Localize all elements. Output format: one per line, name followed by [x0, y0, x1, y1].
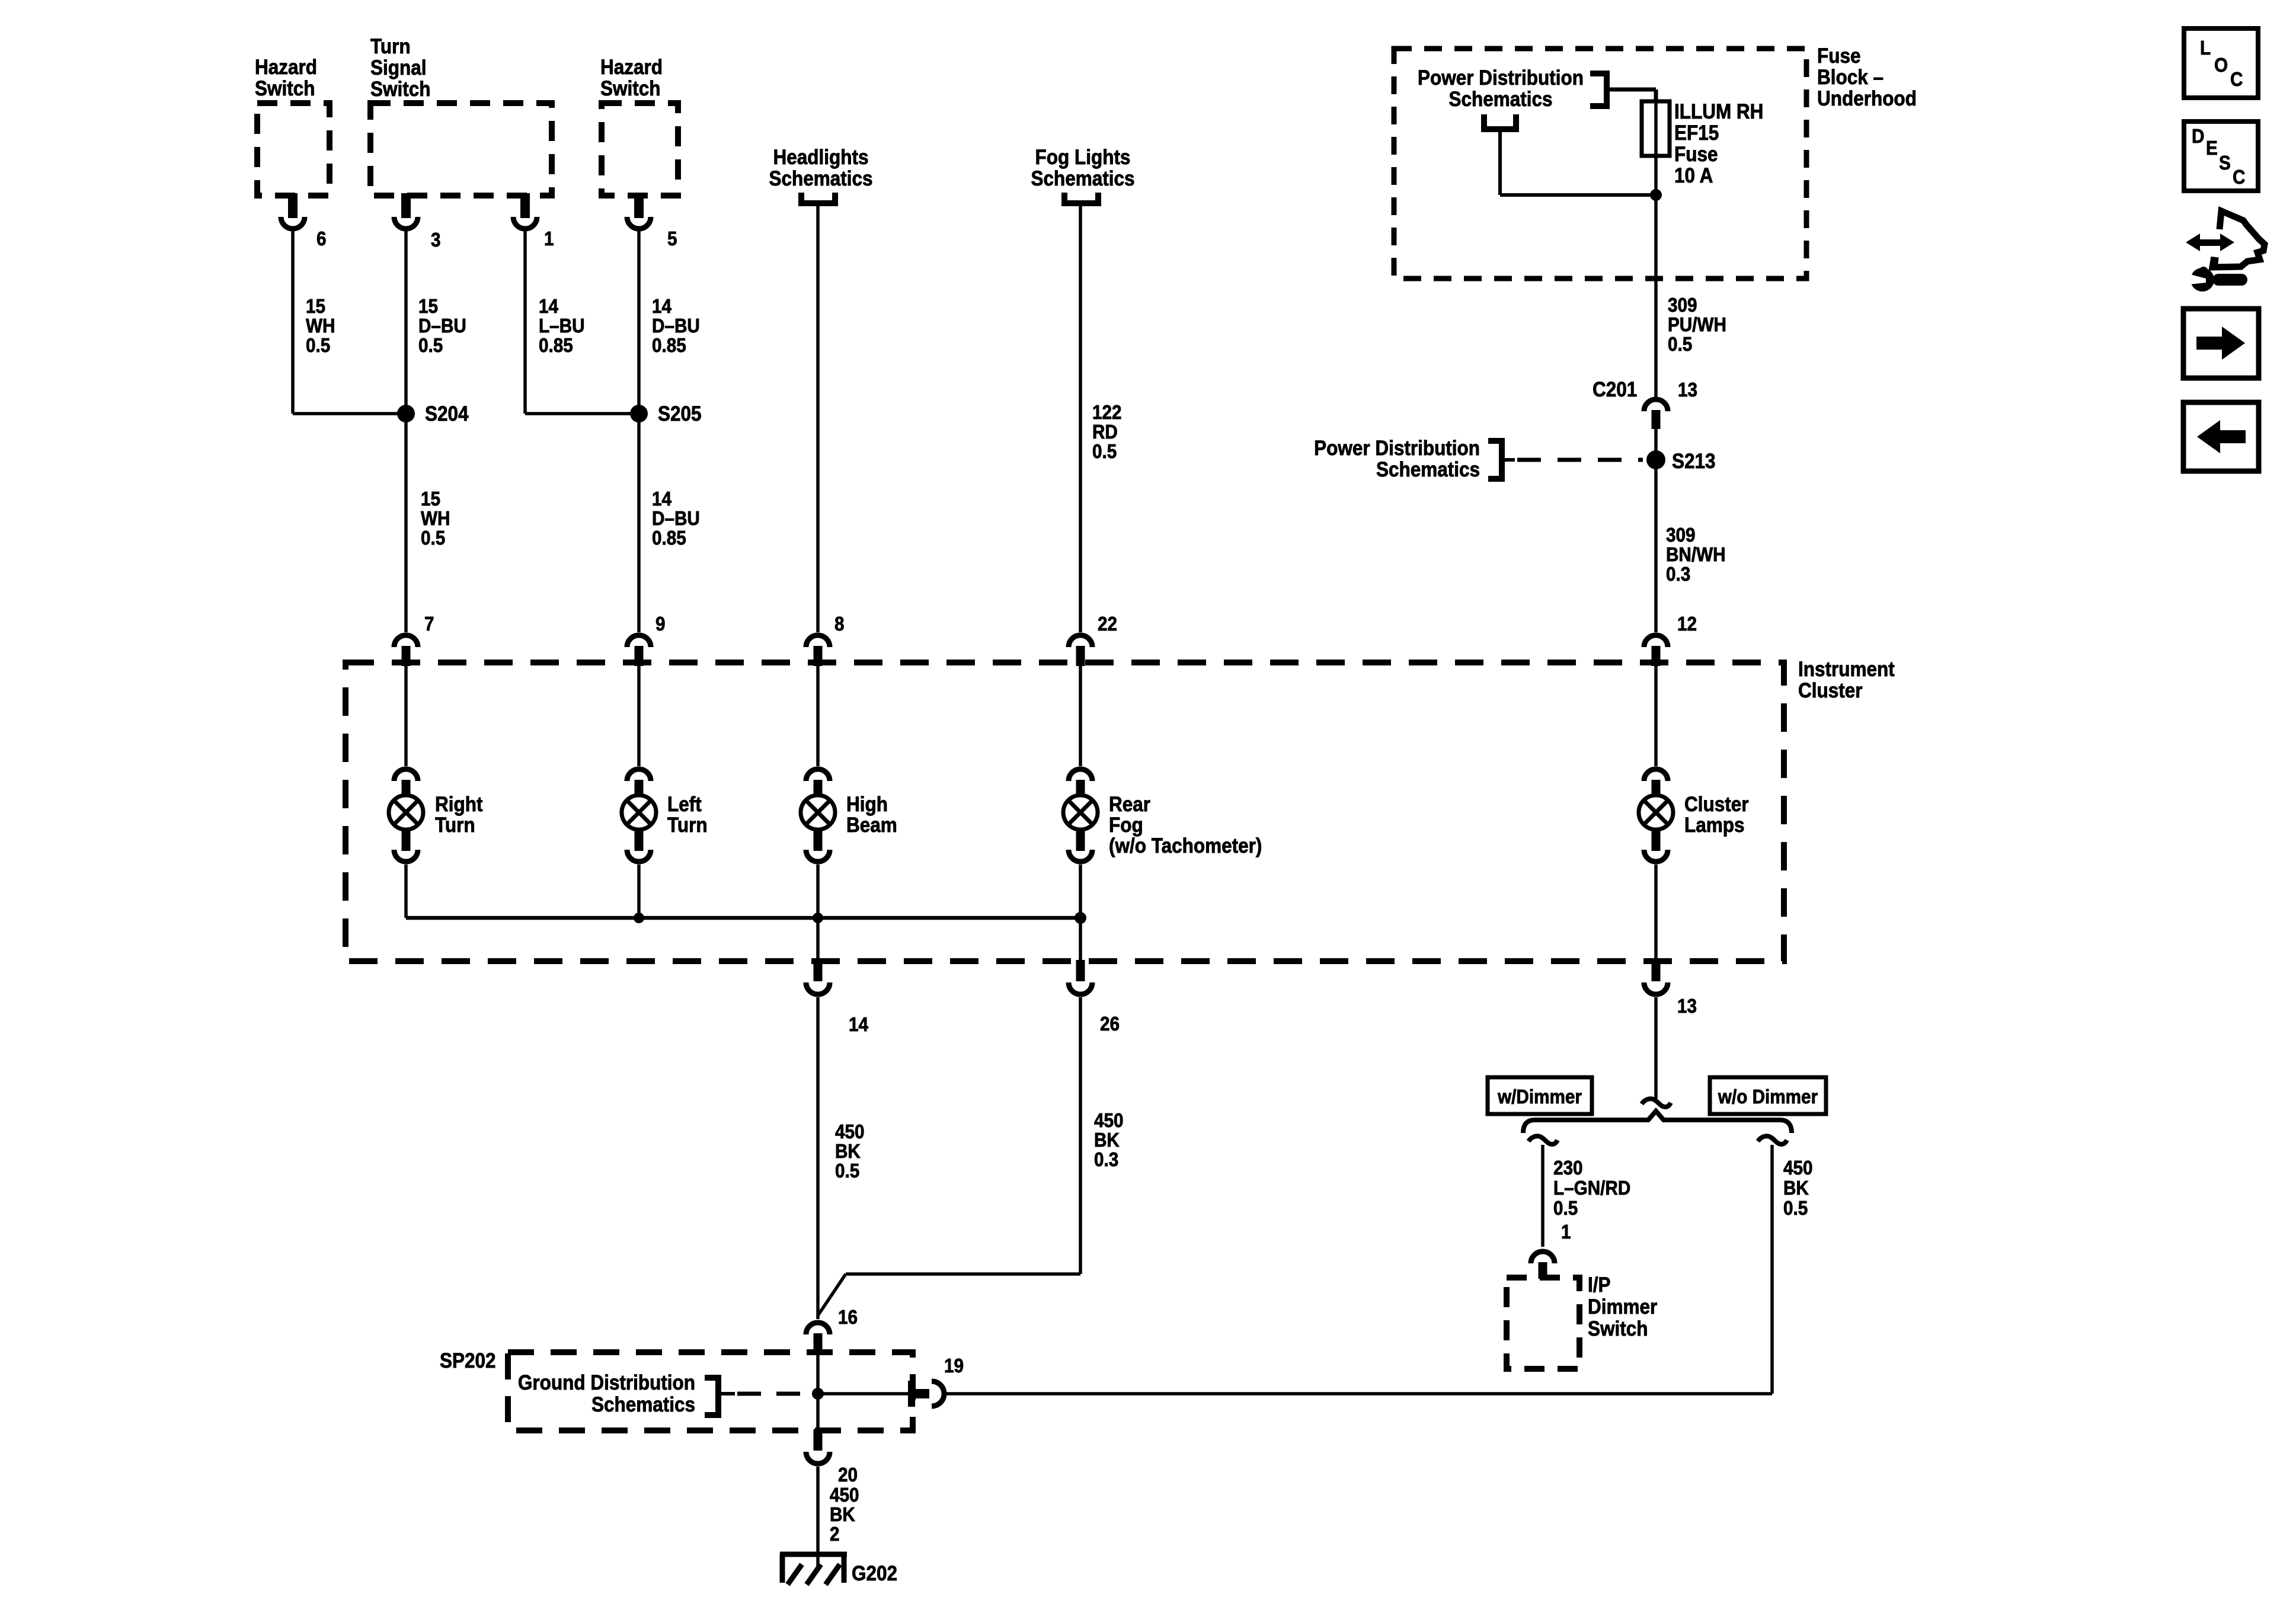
svg-text:D–BU: D–BU [652, 508, 700, 530]
svg-text:2: 2 [830, 1523, 840, 1545]
svg-text:Signal: Signal [370, 57, 426, 80]
svg-text:SP202: SP202 [440, 1350, 496, 1373]
svg-text:Rear: Rear [1109, 793, 1150, 817]
svg-text:Switch: Switch [370, 78, 430, 101]
svg-text:Switch: Switch [1588, 1318, 1648, 1341]
svg-text:0.5: 0.5 [306, 335, 330, 357]
svg-text:230: 230 [1553, 1157, 1583, 1179]
svg-text:Instrument: Instrument [1798, 658, 1895, 681]
svg-text:S204: S204 [425, 403, 469, 426]
svg-text:0.5: 0.5 [1783, 1198, 1808, 1219]
svg-text:Schematics: Schematics [1031, 168, 1134, 191]
svg-text:Schematics: Schematics [591, 1394, 695, 1417]
svg-text:26: 26 [1100, 1013, 1120, 1035]
svg-text:309: 309 [1668, 295, 1697, 316]
svg-text:Schematics: Schematics [1448, 88, 1552, 111]
svg-text:20: 20 [838, 1464, 858, 1486]
svg-text:Ground Distribution: Ground Distribution [518, 1372, 695, 1395]
svg-text:15: 15 [418, 296, 438, 318]
svg-text:15: 15 [421, 488, 440, 510]
svg-text:ILLUM RH: ILLUM RH [1674, 101, 1763, 124]
svg-text:19: 19 [944, 1355, 964, 1377]
svg-text:S213: S213 [1672, 450, 1716, 473]
svg-text:D: D [2192, 126, 2204, 148]
svg-text:C: C [2230, 69, 2243, 91]
svg-text:Schematics: Schematics [769, 168, 872, 191]
svg-text:Fuse: Fuse [1817, 45, 1860, 68]
svg-text:Underhood: Underhood [1817, 88, 1917, 111]
svg-text:14: 14 [539, 296, 559, 318]
svg-text:0.85: 0.85 [539, 335, 573, 357]
svg-text:PU/WH: PU/WH [1668, 314, 1726, 336]
svg-text:Beam: Beam [846, 814, 897, 837]
svg-text:Cluster: Cluster [1798, 680, 1863, 703]
svg-text:EF15: EF15 [1674, 122, 1719, 145]
svg-text:3: 3 [431, 229, 441, 251]
svg-text:9: 9 [655, 613, 666, 635]
svg-text:Hazard: Hazard [255, 56, 317, 79]
svg-text:6: 6 [316, 228, 327, 250]
svg-text:1: 1 [1561, 1221, 1571, 1243]
svg-text:Dimmer: Dimmer [1588, 1296, 1657, 1319]
svg-text:Power Distribution: Power Distribution [1314, 437, 1480, 460]
svg-text:(w/o Tachometer): (w/o Tachometer) [1109, 835, 1262, 858]
svg-text:7: 7 [424, 613, 434, 635]
svg-text:0.5: 0.5 [1553, 1198, 1578, 1219]
svg-text:Right: Right [435, 793, 482, 817]
svg-text:22: 22 [1098, 613, 1117, 635]
svg-text:0.5: 0.5 [835, 1160, 859, 1182]
svg-text:0.5: 0.5 [1092, 441, 1117, 463]
svg-text:1: 1 [544, 228, 554, 250]
svg-text:w/o Dimmer: w/o Dimmer [1718, 1086, 1818, 1108]
svg-text:450: 450 [1783, 1157, 1813, 1179]
svg-text:Left: Left [667, 793, 702, 817]
svg-text:BN/WH: BN/WH [1666, 544, 1726, 566]
svg-text:Cluster: Cluster [1684, 793, 1749, 817]
svg-text:Switch: Switch [600, 78, 660, 101]
svg-text:450: 450 [1094, 1110, 1124, 1132]
svg-text:8: 8 [834, 613, 845, 635]
svg-text:14: 14 [849, 1014, 869, 1036]
svg-text:Turn: Turn [435, 814, 475, 837]
svg-text:Hazard: Hazard [600, 56, 663, 79]
svg-text:D–BU: D–BU [418, 315, 466, 337]
svg-text:w/Dimmer: w/Dimmer [1497, 1086, 1582, 1108]
svg-text:Block –: Block – [1817, 66, 1884, 89]
svg-text:RD: RD [1092, 421, 1118, 443]
svg-text:14: 14 [652, 296, 672, 318]
svg-text:15: 15 [306, 296, 325, 318]
svg-text:Turn: Turn [667, 814, 708, 837]
svg-text:Fuse: Fuse [1674, 143, 1718, 167]
svg-text:BK: BK [830, 1504, 855, 1526]
svg-text:L–BU: L–BU [539, 315, 585, 337]
svg-text:0.3: 0.3 [1666, 564, 1690, 585]
svg-text:0.85: 0.85 [652, 527, 686, 549]
svg-text:O: O [2214, 55, 2228, 76]
svg-text:0.5: 0.5 [1668, 334, 1692, 356]
svg-text:0.5: 0.5 [421, 527, 445, 549]
svg-text:5: 5 [667, 228, 677, 250]
svg-text:13: 13 [1677, 996, 1697, 1017]
svg-text:S205: S205 [658, 403, 702, 426]
svg-text:BK: BK [1094, 1129, 1120, 1151]
svg-text:High: High [846, 793, 888, 817]
svg-text:16: 16 [838, 1307, 858, 1329]
svg-text:WH: WH [421, 508, 450, 530]
svg-text:12: 12 [1677, 613, 1697, 635]
svg-text:Switch: Switch [255, 78, 315, 101]
svg-text:0.3: 0.3 [1094, 1149, 1118, 1171]
svg-text:G202: G202 [852, 1563, 897, 1586]
svg-text:Lamps: Lamps [1684, 814, 1744, 837]
svg-text:Fog: Fog [1109, 814, 1143, 837]
svg-text:WH: WH [306, 315, 335, 337]
svg-text:BK: BK [835, 1141, 861, 1163]
svg-text:S: S [2219, 152, 2231, 174]
svg-text:C: C [2233, 167, 2245, 188]
svg-text:122: 122 [1092, 402, 1122, 424]
svg-text:Power Distribution: Power Distribution [1418, 67, 1584, 90]
svg-text:14: 14 [652, 488, 672, 510]
svg-text:BK: BK [1783, 1177, 1809, 1199]
svg-text:309: 309 [1666, 524, 1696, 546]
svg-text:L–GN/RD: L–GN/RD [1553, 1177, 1630, 1199]
svg-text:0.85: 0.85 [652, 335, 686, 357]
svg-text:E: E [2206, 137, 2218, 159]
svg-text:0.5: 0.5 [418, 335, 443, 357]
svg-text:Schematics: Schematics [1376, 459, 1480, 482]
svg-text:Headlights: Headlights [773, 146, 869, 169]
svg-text:450: 450 [835, 1121, 865, 1143]
svg-text:450: 450 [830, 1484, 859, 1506]
svg-text:13: 13 [1678, 379, 1697, 401]
svg-text:I/P: I/P [1588, 1274, 1611, 1297]
svg-text:Fog Lights: Fog Lights [1035, 146, 1131, 169]
svg-text:Turn: Turn [370, 36, 411, 59]
svg-text:10 A: 10 A [1674, 165, 1713, 188]
svg-text:C201: C201 [1593, 379, 1637, 402]
svg-text:L: L [2200, 37, 2211, 59]
svg-text:D–BU: D–BU [652, 315, 700, 337]
